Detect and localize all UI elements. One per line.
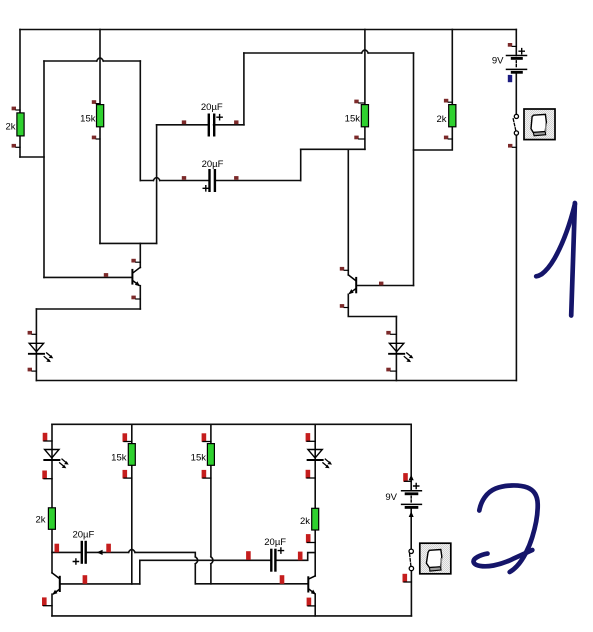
wire 15k R6 line with hop over C3 lead (131, 424, 133, 584)
terminal marker Q3 emitter (42, 597, 52, 606)
wire 15k R3 bottom lead (364, 127, 366, 150)
wire horizontal C2 net to 15k R3 (301, 148, 365, 150)
wire 2k R4 bottom lead to x413.5 (414, 127, 453, 150)
battery B1 9V (492, 49, 527, 83)
wire C2 right vertical up (300, 149, 302, 180)
wire C3 right lead to Q4 base with hops (87, 549, 198, 583)
terminal marker C4 right (298, 552, 303, 561)
capacitor C1 20uF (201, 102, 223, 137)
battery B2 9V (385, 483, 421, 507)
terminal stub D1 anode (28, 331, 37, 335)
resistor R8 2k right (300, 508, 319, 530)
terminal marker D3 anode (43, 433, 52, 442)
svg-text:9V: 9V (492, 56, 504, 67)
terminal stub R4 top (444, 99, 452, 103)
wire Q3 base horizontal (61, 583, 140, 585)
svg-text:15k: 15k (191, 453, 207, 464)
transistor Q2 (348, 275, 356, 294)
wire top supply rail circuit 2 (52, 423, 411, 425)
svg-text:20µF: 20µF (201, 102, 223, 113)
wire Q4 emitter to bottom rail (314, 594, 316, 616)
wire C2 left lead with hop over x156.6 (140, 178, 208, 181)
terminal marker D4 anode (306, 433, 316, 442)
svg-text:2k: 2k (300, 516, 310, 527)
terminal stub R3 bottom (354, 136, 365, 140)
wire battery B2 top lead (410, 424, 412, 490)
terminal stub R2 top (92, 100, 100, 104)
wire R5 bottom lead to Q3 collector node (51, 529, 53, 573)
wire battery B1 to switch S1 (515, 73, 517, 114)
terminal marker R6 top (123, 433, 132, 442)
svg-text:15k: 15k (111, 453, 127, 464)
wire R8 bottom lead to Q4 collector node (314, 530, 316, 576)
wire x140 down to C2 left lead (139, 61, 141, 181)
svg-text:20µF: 20µF (202, 159, 224, 170)
wire Q2 collector drop (347, 149, 349, 275)
wire C1 left lead (157, 124, 208, 126)
terminal marker C3 left (55, 544, 60, 553)
capacitor C4 20uF (264, 537, 286, 572)
wire rail y61 with hop over 15k line (44, 58, 140, 61)
resistor R6 15k (111, 444, 135, 466)
terminal stub C2 right (234, 176, 238, 180)
terminal marker D4 cathode (306, 470, 316, 479)
terminal marker R7 bottom (202, 470, 211, 479)
resistor R5 2k left (35, 508, 55, 530)
wire C2 right lead (216, 180, 301, 182)
terminal stub Q2 base (379, 282, 383, 286)
wire 15k R2 bottom lead down (99, 127, 101, 244)
capacitor C3 20uF (72, 529, 94, 564)
transistor Q1 (132, 267, 140, 286)
current arrow battery bottom (409, 511, 414, 517)
wire 15k R7 line with hop over C4 lead (211, 424, 213, 584)
terminal stub C2 left (182, 176, 186, 180)
wire Q2 emitter down and right (348, 294, 396, 316)
wire bottom return rail circuit 2 (52, 615, 411, 617)
current arrow wire C3 (97, 550, 103, 555)
svg-text:15k: 15k (80, 114, 96, 125)
resistor R2 15k left (80, 105, 104, 127)
wire x413.5 down to Q2 base (413, 53, 415, 286)
capacitor C2 20uF (202, 159, 224, 192)
wire right column LED D4 to R8 (314, 424, 316, 508)
terminal stub R1 bottom (12, 144, 20, 148)
terminal marker D3 cathode (42, 471, 52, 480)
terminal marker R8 bottom (306, 534, 315, 543)
LED D3 (44, 450, 68, 469)
wire C1 right lead (214, 124, 244, 126)
wire bottom return rail circuit 1 (36, 380, 516, 382)
wire top supply rail circuit 1 (20, 29, 516, 31)
wire LED D1 vertical (35, 309, 37, 381)
terminal stub Q1 base (104, 273, 108, 277)
svg-text:2k: 2k (35, 515, 45, 526)
svg-text:15k: 15k (345, 114, 361, 125)
wire switch S1 to bottom rail (515, 135, 517, 380)
terminal marker Q4 base (280, 575, 285, 584)
wire C3 left lead (52, 551, 81, 553)
terminal marker R7 top (202, 433, 211, 442)
transistor Q3 (52, 573, 60, 595)
wire battery B2 to switch S2 (410, 508, 412, 549)
resistor R7 15k (191, 444, 215, 466)
handwritten digit 1 (536, 203, 575, 316)
svg-text:9V: 9V (385, 492, 397, 503)
handwritten digit 2 (474, 485, 538, 572)
wire battery B1 top lead (515, 30, 517, 56)
wire C1 left vertical (156, 125, 158, 244)
resistor R1 2k left (5, 113, 24, 136)
transistor Q4 (308, 576, 316, 595)
terminal stub D2 anode (386, 331, 396, 335)
switch S1 open (513, 114, 518, 135)
terminal stub Q1 emitter (131, 296, 140, 300)
LED D2 (389, 343, 413, 362)
terminal stub Q1 collector (131, 259, 140, 263)
wire vertical node x44 (R1 bottom / Q1 base net) (43, 61, 45, 277)
wire rail y53 with hop over 15k R3 line (244, 50, 414, 53)
terminal stub Q2 collector (340, 267, 349, 271)
wire C1 right vertical up (243, 53, 245, 125)
wire switch S2 to bottom rail (410, 571, 412, 616)
wire C4 left lead horizontal (140, 559, 270, 561)
terminal marker C3 right (106, 544, 111, 553)
svg-text:20µF: 20µF (264, 537, 286, 548)
terminal marker wire C4 left lead (246, 551, 251, 560)
wire R1 bottom lead (19, 136, 21, 158)
terminal stub R1 top (12, 107, 20, 111)
svg-text:2k: 2k (436, 114, 446, 125)
wire 15k R3 top lead (364, 30, 366, 106)
terminal stub C1 left (182, 120, 186, 124)
terminal marker Q3 base (83, 575, 88, 584)
wire emitter rail to LED D1 (36, 308, 140, 310)
terminal stub Q2 emitter (340, 304, 349, 308)
LED D4 (308, 450, 332, 469)
wire LED D2 vertical (395, 317, 397, 381)
current arrow battery top (409, 475, 414, 481)
wire C4 right lead to 2k R8 node (277, 553, 316, 561)
terminal stub switch S1 bottom (508, 144, 516, 148)
resistor R4 2k right (436, 105, 455, 127)
wire Q4 base horizontal (195, 583, 307, 585)
resistor R3 15k right (345, 105, 369, 127)
terminal marker battery B2 positive (403, 473, 411, 482)
terminal stub R2 bottom (92, 136, 100, 140)
wire C4 left vertical from Q3 base (139, 560, 141, 584)
wire R2 bottom horizontal to cap C1 net (100, 242, 157, 244)
wire left column to LED D3 and R5 (51, 424, 53, 508)
wire Q1 collector drop (139, 243, 141, 267)
wire Q3 emitter to bottom rail (51, 594, 53, 616)
terminal marker Q4 emitter (307, 598, 316, 607)
wire 2k R4 top lead (451, 30, 453, 105)
svg-text:2k: 2k (5, 122, 15, 133)
wire R1 bottom to node x44 (20, 156, 44, 158)
terminal stub battery B1 positive (508, 43, 517, 47)
terminal marker R6 bottom (123, 470, 132, 479)
terminal stub R3 top (354, 100, 365, 104)
switch S1 button box (524, 109, 555, 140)
terminal stub D2 cathode (386, 368, 396, 372)
terminal marker switch S2 bottom (403, 574, 412, 583)
wire 15k R2 top lead from rail (99, 30, 101, 106)
switch S2 closed (409, 549, 414, 571)
wire Q1 base horizontal (44, 276, 132, 278)
terminal stub C1 right (234, 120, 238, 124)
wire left rail down to R1 top (19, 30, 21, 114)
terminal stub D1 cathode (28, 368, 37, 372)
switch S2 button box (420, 543, 451, 574)
wire Q1 emitter down (139, 286, 141, 309)
terminal stub R4 bottom (444, 136, 452, 140)
LED D1 (29, 343, 53, 362)
svg-text:20µF: 20µF (72, 529, 94, 540)
wire Q2 base horizontal (357, 285, 414, 287)
